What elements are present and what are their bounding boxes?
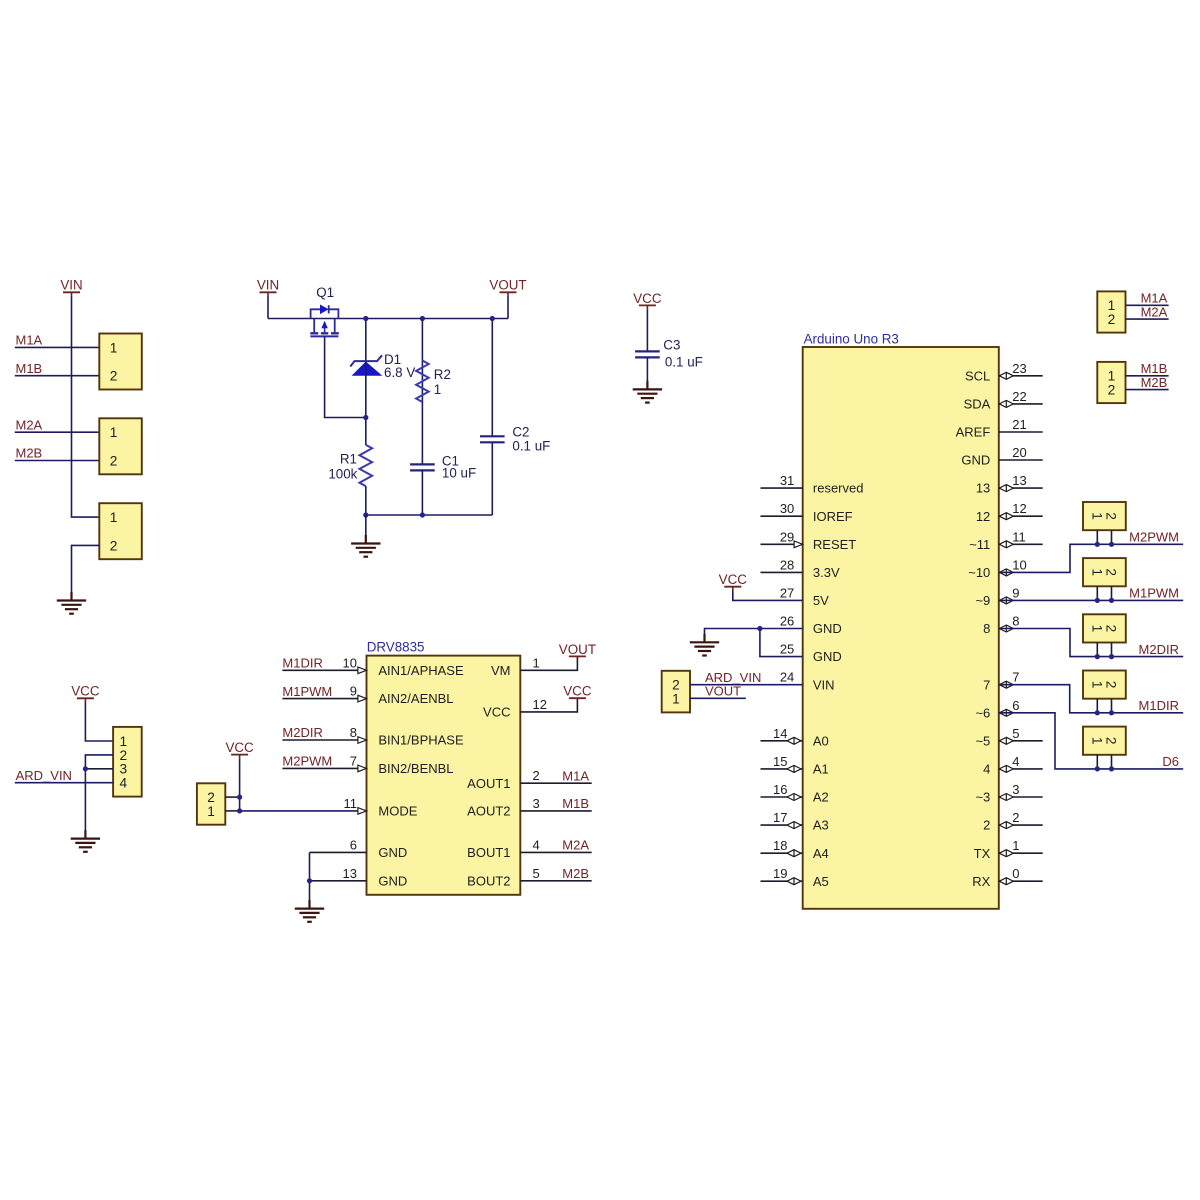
power flag VCC (U2 5V): [719, 572, 748, 590]
power flag VCC (MODE): [225, 740, 254, 758]
svg-text:18: 18: [773, 838, 787, 853]
svg-text:VCC: VCC: [563, 684, 592, 699]
svg-text:M2B: M2B: [562, 866, 589, 881]
U2 pin 3 in/out glyph: [999, 794, 1013, 801]
svg-text:M1PWM: M1PWM: [1129, 586, 1179, 601]
svg-text:2: 2: [1104, 737, 1119, 745]
wire net M1A: [15, 346, 100, 348]
svg-text:2: 2: [1108, 383, 1116, 398]
svg-text:9: 9: [350, 684, 357, 699]
U2 pin 5 in/out glyph: [999, 737, 1013, 744]
svg-text:1: 1: [533, 655, 540, 670]
wire U2 pin 18 stub: [761, 852, 803, 854]
wire VCC to J4 pin 1: [85, 702, 113, 741]
svg-text:26: 26: [780, 614, 794, 629]
svg-text:GND: GND: [378, 873, 407, 888]
svg-text:~10: ~10: [968, 565, 990, 580]
svg-text:1: 1: [1012, 838, 1019, 853]
svg-text:2: 2: [120, 748, 128, 763]
svg-text:5: 5: [533, 866, 540, 881]
svg-text:2: 2: [110, 538, 118, 553]
wire main rail VIN-Q1-VOUT: [268, 318, 508, 320]
svg-text:VOUT: VOUT: [489, 278, 526, 293]
svg-text:0: 0: [1012, 866, 1019, 881]
power flag VOUT (top): [489, 278, 526, 297]
wire U1 GND vertical to ground: [309, 852, 311, 908]
svg-text:BIN2/BENBL: BIN2/BENBL: [378, 761, 453, 776]
wire net M2B: [15, 460, 100, 462]
connector JP D6 pin 1 stub: [1096, 755, 1098, 769]
svg-text:29: 29: [780, 529, 794, 544]
connector JP M2PWM pin 2 stub: [1111, 530, 1113, 544]
svg-text:M2A: M2A: [16, 417, 43, 432]
connector JP M1PWM pin 2 stub: [1111, 586, 1113, 600]
svg-text:R2: R2: [434, 367, 451, 382]
connector JP M2PWM pin 1 junction: [1095, 542, 1100, 547]
power flag VOUT (U1 VM): [559, 642, 596, 657]
svg-text:GND: GND: [961, 453, 990, 468]
power flag VIN (left motor connectors): [60, 278, 82, 297]
svg-text:10: 10: [1012, 557, 1026, 572]
wire U2 pin 25 to GND junction: [760, 629, 803, 657]
connector JP M1PWM pin 1 junction: [1095, 598, 1100, 603]
wire U1 BOUT1 to net M2A: [520, 851, 591, 853]
svg-text:1: 1: [434, 382, 441, 397]
junction U2 GND pins: [757, 626, 762, 631]
junction rail/R2: [420, 316, 425, 321]
svg-text:2: 2: [1108, 312, 1116, 327]
wire JP1 pin 1 stub: [225, 810, 239, 812]
U2 pin 10 in/out glyph: [999, 569, 1013, 576]
wire U2 pin 29 stub: [761, 543, 803, 545]
svg-text:12: 12: [976, 509, 990, 524]
svg-text:100k: 100k: [328, 467, 357, 482]
U2 pin 0 in/out glyph: [999, 878, 1013, 885]
svg-text:28: 28: [780, 557, 794, 572]
wire U2 pin 31 stub: [761, 487, 803, 489]
wire net M1DIR from U2 pin 7: [999, 685, 1183, 713]
U2 pin 14 in/out glyph: [787, 737, 801, 744]
resistor R1 body: [360, 445, 373, 486]
wire J3 pin 2 to ground: [72, 545, 100, 600]
svg-text:1: 1: [110, 510, 118, 525]
svg-text:15: 15: [773, 754, 787, 769]
wire net M1PWM to U1 pin 9: [282, 698, 366, 700]
ground symbol below U1: [295, 900, 324, 922]
svg-text:6.8 V: 6.8 V: [384, 365, 415, 380]
svg-text:4: 4: [1012, 754, 1019, 769]
svg-text:R1: R1: [340, 451, 357, 466]
wire U2 pin 5 stub: [999, 740, 1043, 742]
svg-text:BIN1/BPHASE: BIN1/BPHASE: [378, 733, 464, 748]
svg-text:6: 6: [350, 837, 357, 852]
wire VIN vertical to bottom connector pin 1: [72, 297, 100, 518]
svg-text:~6: ~6: [975, 705, 990, 720]
svg-text:1: 1: [1089, 681, 1104, 689]
wire U1 VCC pin to VCC: [520, 698, 577, 712]
connector JP D6 pin 2 stub: [1111, 755, 1113, 769]
svg-text:M2B: M2B: [1141, 375, 1168, 390]
svg-text:2: 2: [1104, 512, 1119, 520]
svg-text:2: 2: [1104, 568, 1119, 576]
wire U1 BOUT2 to net M2B: [520, 880, 591, 882]
svg-text:VOUT: VOUT: [705, 684, 741, 699]
connector JP M1PWM body: [1083, 558, 1126, 586]
svg-text:2: 2: [1104, 681, 1119, 689]
wire J4 pin 2 to ground net: [85, 755, 113, 839]
wire net ARD_VIN J5 pin2 to U2 pin 24: [690, 684, 803, 686]
capacitor C3 plates: [635, 351, 660, 357]
svg-text:~11: ~11: [969, 537, 990, 552]
U2 pin 11 in/out glyph: [999, 541, 1013, 548]
wire net M2DIR from U2 pin 8: [999, 629, 1183, 657]
U1 pin 11 input arrow: [358, 808, 367, 815]
svg-text:21: 21: [1012, 417, 1026, 432]
svg-text:AOUT1: AOUT1: [467, 776, 510, 791]
power flag VIN (at Q1): [257, 278, 279, 297]
junction gate node: [363, 415, 368, 420]
svg-text:22: 22: [1012, 389, 1026, 404]
svg-text:13: 13: [1012, 473, 1026, 488]
connector JP1 (mode select): [197, 783, 225, 824]
wire U2 pin 2 stub: [999, 824, 1043, 826]
svg-text:8: 8: [350, 725, 357, 740]
junction J4 pin3/ground net: [83, 766, 88, 771]
svg-text:M1A: M1A: [16, 333, 43, 348]
op-amp U1 DRV8835 body: [367, 656, 521, 895]
svg-text:DRV8835: DRV8835: [367, 640, 425, 655]
U2 pin 19 in/out glyph: [787, 878, 801, 885]
svg-text:2: 2: [207, 790, 215, 805]
wire U2 pin 20 stub: [999, 459, 1043, 461]
connector JP M1PWM pin 1 stub: [1096, 586, 1098, 600]
wire VCC down to MODE net: [239, 758, 241, 811]
svg-text:1: 1: [1108, 369, 1116, 384]
svg-text:13: 13: [976, 481, 990, 496]
svg-text:24: 24: [780, 670, 794, 685]
wire U1 GND pin 6: [310, 851, 367, 853]
wire U1 AOUT2 to net M1B: [520, 810, 591, 812]
svg-text:A1: A1: [813, 762, 829, 777]
svg-text:M1B: M1B: [1141, 361, 1168, 376]
connector JP M2DIR pin 1 junction: [1095, 654, 1100, 659]
resistor R2 body: [416, 361, 429, 403]
svg-text:BOUT2: BOUT2: [467, 873, 510, 888]
junction rail/C1: [420, 512, 425, 517]
wire U2 pin 4 stub: [999, 768, 1043, 770]
svg-text:4: 4: [533, 837, 540, 852]
wire net M1A at J6 pin 1: [1126, 304, 1169, 306]
svg-text:2: 2: [983, 818, 990, 833]
svg-text:1: 1: [1089, 512, 1104, 520]
svg-text:9: 9: [1012, 585, 1019, 600]
connector JP M1PWM pin 2 junction: [1109, 598, 1114, 603]
svg-text:3: 3: [1012, 782, 1019, 797]
U2 pin 13 in/out glyph: [999, 485, 1013, 492]
svg-text:VCC: VCC: [719, 572, 748, 587]
svg-text:14: 14: [773, 726, 787, 741]
svg-text:M2PWM: M2PWM: [1129, 530, 1179, 545]
svg-text:2: 2: [110, 369, 118, 384]
svg-text:GND: GND: [813, 621, 842, 636]
svg-text:M1B: M1B: [16, 361, 43, 376]
svg-text:25: 25: [780, 642, 794, 657]
transistor Q1 (P-MOSFET with body diode): [310, 305, 339, 337]
svg-text:4: 4: [120, 776, 128, 791]
svg-text:A5: A5: [813, 874, 829, 889]
connector J7 (M1B/M2B header): [1097, 362, 1125, 403]
svg-text:GND: GND: [813, 649, 842, 664]
svg-text:ARD_VIN: ARD_VIN: [16, 768, 72, 783]
wire C3 to ground: [646, 357, 648, 389]
connector JP M2PWM body: [1083, 502, 1126, 530]
svg-text:1: 1: [110, 425, 118, 440]
wire U2 pin 23 stub: [999, 375, 1043, 377]
wire U2 pin 14 stub: [761, 740, 803, 742]
svg-text:M2A: M2A: [562, 838, 589, 853]
connector J2 (motor 2 terminal block): [99, 418, 142, 474]
connector JP D6 body: [1083, 727, 1126, 755]
svg-text:17: 17: [773, 810, 787, 825]
ground symbol below R1: [351, 535, 380, 557]
junction rail/C2: [490, 316, 495, 321]
svg-text:M2B: M2B: [16, 446, 43, 461]
svg-text:GND: GND: [378, 845, 407, 860]
U2 pin 9 in/out glyph: [999, 597, 1013, 604]
svg-text:A4: A4: [813, 846, 829, 861]
U2 pin 1 in/out glyph: [999, 850, 1013, 857]
wire U2 pin 3 stub: [999, 796, 1043, 798]
svg-text:BOUT1: BOUT1: [467, 845, 510, 860]
wire U2 pin 30 stub: [761, 515, 803, 517]
connector J5 (ARD_VIN/VOUT jumper): [662, 671, 690, 713]
ground symbol below J4: [71, 830, 100, 852]
svg-text:M2DIR: M2DIR: [1139, 642, 1179, 657]
svg-text:TX: TX: [974, 846, 991, 861]
wire U2 pin 16 stub: [761, 796, 803, 798]
wire U2 pin 22 stub: [999, 403, 1043, 405]
svg-text:7: 7: [350, 753, 357, 768]
U2 pin 7 in/out glyph: [999, 681, 1013, 688]
svg-text:10 uF: 10 uF: [442, 465, 476, 480]
power flag VCC (U1 pin 12): [563, 684, 592, 699]
wire U2 pin 26 to ground: [705, 629, 803, 643]
svg-text:M2DIR: M2DIR: [282, 725, 322, 740]
svg-text:11: 11: [1012, 529, 1026, 544]
svg-text:VIN: VIN: [813, 677, 835, 692]
wire C2 to bottom rail: [491, 442, 493, 515]
wire net M2PWM to U1 pin 7: [282, 767, 366, 769]
wire VCC to U2 pin 27: [733, 591, 803, 601]
U2 pin 15 in/out glyph: [787, 765, 801, 772]
svg-text:30: 30: [780, 501, 794, 516]
svg-text:M1B: M1B: [562, 796, 589, 811]
ground symbol below J3: [57, 592, 86, 614]
wire net M2DIR to U1 pin 8: [282, 739, 366, 741]
connector JP M1DIR pin 1 junction: [1095, 710, 1100, 715]
svg-text:M1DIR: M1DIR: [1139, 698, 1179, 713]
wire C1 to bottom rail: [421, 470, 423, 515]
connector JP M1DIR body: [1083, 671, 1126, 699]
svg-text:3: 3: [120, 762, 128, 777]
svg-text:20: 20: [1012, 445, 1026, 460]
U1 pin 9 input arrow: [358, 695, 367, 702]
svg-text:7: 7: [1012, 670, 1019, 685]
connector JP D6 pin 1 junction: [1095, 766, 1100, 771]
connector J6 (M1A/M2A header): [1097, 291, 1125, 332]
connector JP M2DIR pin 1 stub: [1096, 643, 1098, 657]
ground symbol at U2: [690, 634, 719, 656]
svg-text:M2A: M2A: [1141, 304, 1168, 319]
svg-text:~9: ~9: [975, 593, 990, 608]
wire rail down through D1 branch: [365, 319, 367, 445]
svg-text:IOREF: IOREF: [813, 509, 853, 524]
svg-text:VIN: VIN: [257, 278, 279, 293]
wire Q1 gate to R1/D1 node: [325, 337, 366, 418]
junction U1 GND pins: [307, 878, 312, 883]
svg-text:VCC: VCC: [225, 740, 254, 755]
capacitor C1 plates: [410, 464, 435, 470]
wire net M1PWM from U2 pin 9: [999, 599, 1183, 601]
connector JP M1DIR pin 2 stub: [1111, 699, 1113, 713]
svg-text:A3: A3: [813, 818, 829, 833]
wire net M2B at J7 pin 2: [1126, 389, 1169, 391]
svg-text:VCC: VCC: [483, 705, 510, 720]
junction rail/D1: [363, 316, 368, 321]
U2 pin 2 in/out glyph: [999, 822, 1013, 829]
svg-text:M1A: M1A: [562, 768, 589, 783]
wire bottom rail: [366, 514, 493, 516]
wire VOUT down to rail: [507, 297, 509, 319]
wire U1 VM to VOUT: [520, 656, 577, 670]
U2 pin 23 in/out glyph: [999, 372, 1013, 379]
svg-text:4: 4: [983, 762, 990, 777]
connector JP M2DIR pin 2 junction: [1109, 654, 1114, 659]
svg-text:23: 23: [1012, 361, 1026, 376]
svg-text:7: 7: [983, 677, 990, 692]
U2 pin 12 in/out glyph: [999, 513, 1013, 520]
wire VCC to C3: [646, 309, 648, 351]
wire U2 pin 11 stub: [999, 543, 1043, 545]
connector JP D6 pin 2 junction: [1109, 766, 1114, 771]
svg-text:1: 1: [1089, 568, 1104, 576]
svg-text:VIN: VIN: [60, 278, 82, 293]
wire rail to R2 branch: [421, 319, 423, 465]
connector JP M2DIR pin 2 stub: [1111, 643, 1113, 657]
svg-text:RESET: RESET: [813, 537, 856, 552]
connector J4 (4-pin power header): [113, 727, 142, 797]
svg-text:1: 1: [1089, 737, 1104, 745]
wire R1 to bottom rail: [365, 486, 367, 515]
wire U2 pin 13 stub: [999, 487, 1043, 489]
svg-text:10: 10: [343, 655, 357, 670]
svg-text:Q1: Q1: [316, 285, 334, 300]
wire J4 pin 3 stub: [85, 768, 113, 770]
wire U2 pin 15 stub: [761, 768, 803, 770]
wire U2 pin 0 stub: [999, 880, 1043, 882]
zener diode D1 symbol: [350, 355, 382, 376]
wire C2 branch: [491, 319, 493, 437]
connector JP M1DIR pin 2 junction: [1109, 710, 1114, 715]
wire U1 AOUT1 to net M1A: [520, 782, 591, 784]
connector JP M2PWM pin 2 junction: [1109, 542, 1114, 547]
wire net D6 from U2 pin 6: [999, 713, 1183, 769]
svg-text:1: 1: [1089, 625, 1104, 633]
U2 pin 16 in/out glyph: [787, 794, 801, 801]
svg-text:8: 8: [983, 621, 990, 636]
svg-text:2: 2: [1012, 810, 1019, 825]
svg-text:1: 1: [672, 691, 680, 706]
svg-text:reserved: reserved: [813, 481, 864, 496]
svg-text:2: 2: [1104, 625, 1119, 633]
connector JP M2PWM pin 1 stub: [1096, 530, 1098, 544]
svg-text:1: 1: [110, 340, 118, 355]
connector J3 (power terminal block): [99, 503, 142, 559]
svg-text:SCL: SCL: [965, 368, 990, 383]
svg-text:1: 1: [120, 734, 128, 749]
svg-text:1: 1: [1108, 298, 1116, 313]
svg-text:M1DIR: M1DIR: [282, 656, 322, 671]
svg-text:19: 19: [773, 866, 787, 881]
U1 pin 7 input arrow: [358, 765, 367, 772]
wire rail to ground: [365, 515, 367, 543]
svg-text:M2PWM: M2PWM: [282, 754, 332, 769]
wire net M2A at J6 pin 2: [1126, 318, 1169, 320]
svg-text:11: 11: [344, 796, 358, 811]
U2 pin 22 in/out glyph: [999, 400, 1013, 407]
U2 pin 8 in/out glyph: [999, 625, 1013, 632]
wire net M1DIR to U1 pin 10: [282, 669, 366, 671]
junction rail/R1-gnd: [363, 512, 368, 517]
ground symbol below C3: [633, 381, 662, 403]
svg-text:27: 27: [780, 585, 794, 600]
connector J1 (motor 1 terminal block): [99, 334, 142, 390]
svg-text:M1A: M1A: [1141, 291, 1168, 306]
svg-text:Arduino Uno R3: Arduino Uno R3: [804, 332, 899, 347]
svg-text:AOUT2: AOUT2: [467, 804, 510, 819]
junction VCC/JP1 pin 2: [237, 795, 242, 800]
svg-text:~3: ~3: [975, 790, 990, 805]
svg-text:A2: A2: [813, 790, 829, 805]
U2 pin 29 input arrow: [794, 541, 803, 548]
svg-text:~5: ~5: [975, 733, 990, 748]
svg-text:M1PWM: M1PWM: [282, 684, 332, 699]
svg-text:C2: C2: [512, 424, 529, 439]
power flag VCC (C3): [633, 291, 662, 310]
wire U2 pin 12 stub: [999, 515, 1043, 517]
svg-text:0.1 uF: 0.1 uF: [665, 355, 703, 370]
power flag VCC (4-pin header): [71, 684, 100, 702]
wire net M1B at J7 pin 1: [1126, 375, 1169, 377]
wire U2 pin 28 stub: [761, 571, 803, 573]
svg-text:2: 2: [110, 454, 118, 469]
wire net M1B: [15, 375, 100, 377]
wire net VOUT at J5 pin 1: [690, 697, 746, 699]
svg-text:VCC: VCC: [71, 684, 100, 699]
svg-text:SDA: SDA: [964, 397, 991, 412]
svg-text:1: 1: [207, 804, 215, 819]
wire U2 pin 21 stub: [999, 431, 1043, 433]
svg-text:6: 6: [1012, 698, 1019, 713]
svg-text:AIN1/APHASE: AIN1/APHASE: [378, 663, 464, 678]
U2 pin 18 in/out glyph: [787, 850, 801, 857]
svg-text:8: 8: [1012, 614, 1019, 629]
svg-text:D6: D6: [1162, 754, 1179, 769]
wire net M2A: [15, 431, 100, 433]
U2 pin 6 in/out glyph: [999, 709, 1013, 716]
svg-text:12: 12: [1012, 501, 1026, 516]
svg-text:3: 3: [533, 796, 540, 811]
